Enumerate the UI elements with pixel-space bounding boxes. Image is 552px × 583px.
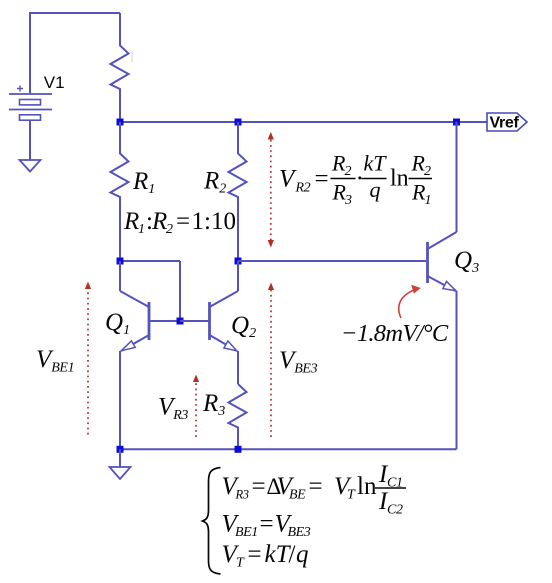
label R2	[203, 168, 226, 197]
svg-text:VR3: VR3	[158, 394, 188, 424]
svg-text:1: 1	[425, 193, 432, 208]
svg-text:T: T	[347, 488, 356, 503]
svg-text:V: V	[279, 166, 297, 193]
svg-text:C2: C2	[387, 503, 403, 518]
svg-text:1:10: 1:10	[192, 208, 236, 235]
svg-text:=: =	[252, 473, 266, 500]
svg-text:T: T	[236, 556, 245, 571]
svg-text:VBE3: VBE3	[279, 347, 318, 377]
equation line 2	[222, 511, 311, 541]
svg-text:BE: BE	[289, 488, 306, 503]
curved arrow to Q3 emitter	[399, 285, 421, 318]
junction at bases	[177, 318, 184, 325]
label Q3	[454, 247, 479, 276]
svg-text:−1.8mV/°C: −1.8mV/°C	[341, 320, 449, 347]
svg-text:R: R	[151, 208, 167, 235]
svg-text:ln: ln	[390, 166, 409, 192]
svg-text:VBE1: VBE1	[36, 346, 74, 376]
label Q2	[231, 312, 256, 341]
junction at Q3 collector / Vref	[453, 119, 460, 126]
svg-text:ln: ln	[357, 473, 377, 500]
svg-text:=: =	[176, 208, 190, 235]
svg-text:=: =	[315, 166, 329, 193]
svg-text:q: q	[296, 541, 309, 568]
svg-text:Q1: Q1	[105, 309, 130, 338]
wire mid rail node Vref	[120, 121, 487, 123]
svg-text:V1: V1	[44, 73, 65, 92]
faint artifact near top resistor	[131, 51, 133, 62]
label Q1	[105, 309, 130, 338]
svg-text:Q2: Q2	[231, 312, 256, 341]
wire bases Q1-Q2	[180, 320, 210, 322]
junction at Rtop bottom	[117, 119, 124, 126]
wire left vertical V1 top lead	[29, 12, 31, 94]
equation brace	[203, 468, 221, 575]
wire Q1 emitter down	[119, 351, 121, 449]
svg-text:=: =	[309, 473, 323, 500]
arrow VBE1 (red dotted)	[85, 282, 91, 435]
wire V1 bottom lead	[29, 120, 31, 160]
junction at Q1 emitter / ground	[117, 446, 124, 453]
svg-text:R1: R1	[132, 168, 155, 197]
svg-text:3: 3	[344, 193, 352, 208]
junction at R1 bottom	[117, 258, 124, 265]
junction at R3 bottom	[235, 446, 242, 453]
formula VR2	[279, 151, 432, 209]
wire Q2 emitter to R3	[237, 351, 239, 384]
svg-text:2: 2	[424, 164, 431, 179]
arrow VR3 (red dotted)	[193, 375, 199, 438]
label ratio R1:R2=1:10	[123, 208, 236, 237]
label R3	[202, 390, 225, 419]
svg-text:kT: kT	[364, 151, 388, 176]
wire Q2 base rail to Q3	[238, 260, 426, 262]
svg-text:R: R	[123, 208, 139, 235]
resistor R1	[111, 122, 129, 261]
wire ground stem	[119, 449, 121, 467]
wire top from V1 plus to top resistor	[30, 12, 120, 14]
battery V1	[9, 86, 52, 121]
label R1	[132, 168, 155, 197]
svg-text:R3: R3	[202, 390, 225, 419]
svg-text:BE3: BE3	[288, 525, 311, 540]
svg-text:2: 2	[166, 222, 173, 237]
svg-text:1: 1	[138, 222, 145, 237]
svg-text:R2: R2	[295, 181, 311, 196]
junction at R2 bottom	[235, 258, 242, 265]
svg-text:Q3: Q3	[454, 247, 479, 276]
ground under V1	[20, 160, 41, 172]
svg-text:q: q	[370, 177, 381, 202]
svg-text:=: =	[260, 511, 274, 538]
transistor Q3	[428, 122, 457, 291]
ground symbol bottom	[110, 467, 131, 479]
svg-text:2: 2	[345, 164, 352, 179]
wire ground rail	[120, 448, 457, 450]
label VBE3	[279, 347, 318, 377]
equation line 3	[222, 541, 309, 571]
junction at R2 top	[235, 119, 242, 126]
svg-text:BE1: BE1	[235, 525, 258, 540]
resistor R3	[229, 384, 247, 449]
wire node A horizontal (Q1 collector to base tie)	[120, 260, 180, 262]
svg-text:R3: R3	[235, 488, 249, 502]
arrow VR2 double (red dotted)	[268, 132, 274, 248]
transistor Q1	[120, 261, 180, 351]
arrow VBE3 (red dotted)	[268, 283, 274, 438]
label VR3	[158, 394, 188, 424]
svg-text:R2: R2	[203, 168, 226, 197]
svg-text:/: /	[289, 541, 296, 568]
wire node A vertical down to bases	[179, 261, 181, 321]
wire Q3 emitter down	[456, 291, 458, 449]
resistor R2	[229, 122, 247, 261]
svg-text:Vref: Vref	[490, 115, 520, 132]
resistor Rtop	[111, 13, 129, 122]
equation line 1	[222, 461, 407, 518]
label VBE1	[36, 346, 74, 376]
svg-text:=: =	[248, 541, 262, 568]
label V1	[44, 73, 65, 92]
label -1.8mV/C	[341, 320, 449, 347]
net flag Vref	[487, 113, 527, 132]
transistor Q2	[210, 261, 239, 351]
